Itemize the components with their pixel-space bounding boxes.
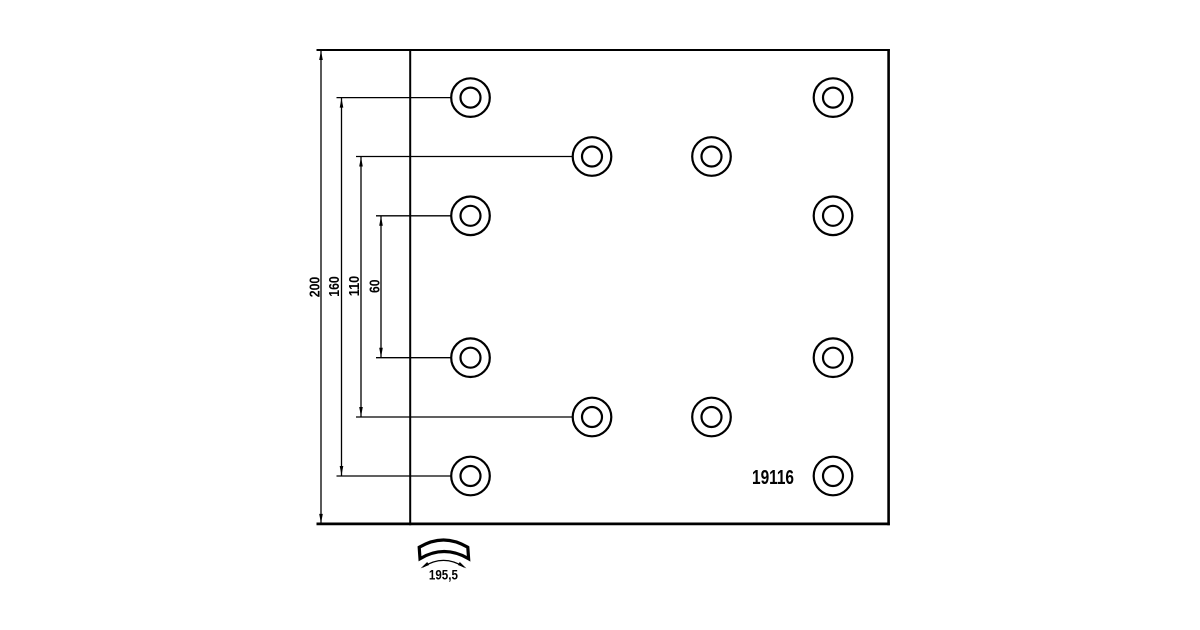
dim line 110 [360, 157, 362, 418]
arrow 60 bottom [379, 348, 383, 358]
leader row5 [356, 416, 573, 418]
label 160 [327, 276, 343, 297]
arrow 60 top [379, 216, 383, 226]
hole C2R2 [573, 137, 612, 176]
label 110 [347, 276, 363, 297]
dimension lines [321, 50, 573, 524]
brake lining plate outline [317, 49, 890, 525]
leader row3 [376, 215, 452, 217]
arrow 160 bottom [340, 466, 344, 476]
hole C2R5 [573, 398, 612, 437]
arrow 200 bottom [319, 514, 323, 524]
hole C3R2 [692, 137, 731, 176]
leader row2 [356, 156, 573, 158]
arrow 160 top [340, 98, 344, 108]
width dimension arc 195.5 [423, 560, 464, 567]
svg-text:160: 160 [327, 276, 343, 297]
hole C3R5 [692, 398, 731, 437]
arc arrow right [458, 562, 467, 568]
hole C4R3 [814, 197, 853, 236]
arc arrow left [421, 562, 430, 568]
hole C1R3 [451, 197, 490, 236]
svg-text:110: 110 [347, 276, 363, 297]
hole C4R4 [814, 338, 853, 377]
svg-text:19116: 19116 [752, 467, 794, 489]
arrow 200 top [319, 51, 323, 61]
label 200 [308, 277, 324, 298]
dim line 60 [380, 216, 382, 358]
svg-text:60: 60 [367, 279, 383, 293]
curved lining cross-section symbol [419, 540, 468, 559]
leader row1 [337, 97, 452, 99]
hole C1R4 [451, 338, 490, 377]
label 60 [367, 279, 383, 293]
hole C1R1 [451, 78, 490, 117]
dim line 200 [320, 50, 322, 524]
svg-text:200: 200 [308, 277, 324, 298]
hole C1R6 [451, 457, 490, 496]
leader row6 [337, 475, 452, 477]
hole C4R6 [814, 457, 853, 496]
dimension arrows [319, 51, 383, 524]
arrow 110 bottom [359, 407, 363, 417]
leader row4 [376, 357, 452, 359]
rivet holes [451, 78, 852, 495]
hole C4R1 [814, 78, 853, 117]
dim line 160 [341, 98, 343, 476]
svg-text:195,5: 195,5 [429, 568, 458, 583]
arrow 110 top [359, 157, 363, 167]
